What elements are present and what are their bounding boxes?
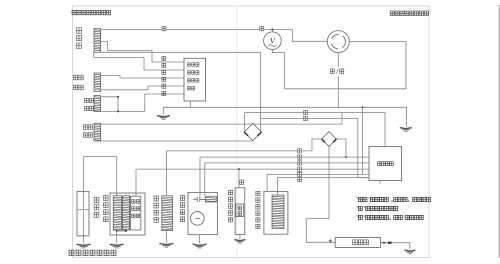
wire: node line V to panel switch entry 5 — [261, 119, 370, 178]
connector CN1 (plug pair) — [244, 123, 261, 140]
wire: kill line riser into ignition coil — [135, 169, 137, 196]
label: 浮子 (float) — [238, 206, 242, 210]
label: 磁场绕组 (field winding) — [84, 98, 88, 102]
wire: AVR ground pin — [189, 101, 191, 107]
wire: field winding upper tap — [101, 96, 118, 98]
label: wire colour mark on red lead — [259, 26, 264, 31]
connector CN2 (plug pair) — [322, 132, 337, 147]
ground: AVR earth symbol — [157, 116, 170, 117]
wire: DC winding upper lead — [101, 113, 342, 125]
wire: solenoid lead from bus W5 — [266, 174, 268, 191]
solenoid valve Y1 carburetor box — [264, 191, 288, 234]
winding L1 main winding — [94, 29, 101, 53]
wire: ignition coil ground stem — [116, 231, 118, 244]
wire: bus L2 starter line — [200, 156, 369, 158]
wire: node line U to panel switch top — [245, 113, 386, 147]
label: 蓄电池 text — [353, 240, 358, 245]
wire: field winding tie vertical — [117, 97, 119, 112]
wire: bus L4 ignition kill line — [137, 168, 370, 170]
label: 点火线圈 (ignition coil) — [104, 196, 109, 201]
winding L3 field winding — [94, 96, 101, 112]
label: 主绕组 (main winding) — [77, 28, 82, 33]
label: note line 3 — [357, 215, 360, 217]
wire: excitation winding to AVR input 3 — [101, 76, 184, 79]
wire: white lead from main winding to connector CN1 — [101, 52, 261, 132]
wire: starter riser A to bus L2 — [199, 157, 201, 197]
wire: voltmeter top stem — [271, 30, 273, 32]
wire: bus L1 charging coil line — [166, 150, 312, 152]
ignition coil T1 box — [110, 193, 145, 235]
label: battery plus terminal — [329, 239, 332, 242]
wire: CN2 bottom to battery positive — [306, 146, 335, 242]
oil level sensor B1 — [235, 188, 245, 235]
label: bus wire colour column — [297, 149, 302, 154]
wire: main winding tap to AVR input 2 — [94, 52, 184, 70]
label: note line 1 switch states — [357, 197, 360, 199]
wire: excitation winding to AVR input 4 — [101, 86, 184, 90]
ground: battery earth — [404, 250, 415, 251]
AC output socket J1 — [327, 31, 349, 53]
label: wire colour on node line V — [303, 116, 308, 121]
winding L2 excitation winding — [94, 73, 101, 92]
label: wire colour on node line U — [303, 110, 308, 115]
label: 启动电机 (starter motor) — [180, 196, 185, 201]
wire: spark plug bridge — [84, 156, 117, 158]
spark plug E1 — [77, 191, 89, 236]
wire: voltmeter return loop to socket — [272, 42, 406, 89]
wire: panel switch bottom stub — [379, 181, 381, 184]
label: right section title 控制面板电路框图 — [390, 11, 394, 15]
junction dots on field winding tie — [117, 96, 119, 98]
charging coil L5 — [162, 196, 173, 231]
starter motor M1 box — [188, 192, 217, 234]
wire: line U drop to connector CN1 left — [244, 113, 246, 133]
label: bottom section title 汽油机电路框图 — [69, 250, 74, 255]
wire: oil sensor lead to bus L4 — [238, 169, 240, 188]
label: 励磁绕组 (excitation winding) — [73, 75, 77, 80]
starter motor armature circle — [191, 212, 205, 226]
label: note line 2 — [357, 206, 360, 208]
wire: spark plug down lead — [83, 157, 85, 192]
starter solenoid coil — [205, 196, 216, 202]
wire: solenoid coil lead from bus W6 — [277, 178, 279, 196]
junction dot on ground bus — [362, 106, 364, 108]
label: AVR text 自动电压调节器(AVR) — [187, 63, 190, 67]
solenoid valve coil — [272, 195, 284, 229]
junction dot oil sensor tap — [238, 168, 240, 170]
switch S1 panel switch box 面板开关 — [369, 147, 402, 181]
wire: main winding tap to AVR input 1 — [101, 42, 184, 63]
label: wire colour 黄 (yellow) — [239, 180, 244, 185]
wire: DC winding lower lead to connector CN1 — [101, 140, 253, 142]
wire: battery negative to ground — [380, 243, 409, 250]
wire: oil sensor ground stem — [239, 235, 241, 239]
wire: riser from ground bus junction to W5 — [362, 107, 364, 174]
label: 火花塞 (spark plug) — [94, 197, 99, 202]
wire: ignition coil bottom tie — [117, 230, 126, 232]
battery GB1 蓄电池 — [335, 238, 380, 248]
wire: CN2 right vertex to bus L2 — [336, 139, 346, 157]
label: wire colour 红 (red) — [162, 26, 167, 31]
label: 充电线圈 (charging coil) — [154, 196, 159, 201]
label: left section title 发电电机电路框图 — [72, 10, 76, 14]
wire: charging coil riser to bus L1 — [165, 151, 167, 196]
ground: charging coil earth — [159, 244, 173, 245]
wire: starter ground stem — [199, 235, 201, 244]
junction dot on bus L2 — [345, 156, 347, 158]
wire: bus W5 solenoid line — [267, 173, 369, 175]
wire: bus W6 solenoid coil line — [278, 177, 369, 179]
wire: bus L3 starter line 2 — [204, 162, 369, 164]
label: 面板开关 text — [377, 162, 381, 166]
label: 化油器电磁阀 (carburetor solenoid) — [256, 191, 260, 196]
label: 直流绕组 (DC winding) — [83, 125, 87, 129]
wire: bridge into ignition coil — [116, 157, 118, 196]
voltmeter P1 — [264, 32, 282, 50]
label: 机油传感器 (oil sensor) — [229, 190, 233, 195]
junction dot at voltmeter tap — [271, 29, 273, 31]
ground: starter earth — [193, 244, 207, 245]
ground: oil sensor earth — [234, 240, 245, 241]
wire: ground bus — [164, 107, 407, 126]
label: 黄/绿 (yellow/green) PE wire — [329, 67, 346, 75]
winding L4 DC winding — [94, 123, 101, 141]
ground: control panel earth symbol — [400, 128, 412, 129]
junction dots ignition coil bottom — [116, 230, 118, 232]
wire: CN2 left vertex to bus L1 — [312, 139, 322, 151]
label: battery minus terminal — [383, 242, 386, 244]
wire: field winding lower tap to AVR input 5 — [101, 94, 184, 111]
op-amp U1 AVR automatic voltage regulator box — [184, 58, 206, 101]
label: AVR input wire colour column — [162, 56, 166, 60]
svg-text:V: V — [270, 36, 277, 46]
ground: ignition coil earth — [110, 244, 124, 245]
wire: charging coil ground stem — [165, 231, 167, 243]
ground: spark plug earth — [77, 244, 91, 245]
wire: starter riser B to bus L3 — [204, 163, 206, 196]
wire: red lead from main winding to socket — [101, 30, 328, 42]
wire: socket PE lead to ground bus — [337, 53, 339, 108]
